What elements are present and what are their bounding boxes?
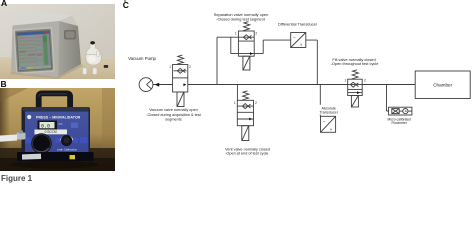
wire pump to vacuum valve — [153, 84, 173, 86]
svg-text:1: 1 — [235, 32, 237, 36]
separation valve Q2 — [238, 22, 254, 70]
machine top face — [13, 11, 73, 26]
label: Absolute Transducer — [318, 105, 340, 115]
caption (cropped) — [1, 174, 32, 183]
wire — [306, 40, 318, 84]
base — [17, 152, 94, 161]
bench shadow under machine — [10, 64, 83, 79]
wire — [236, 85, 238, 101]
svg-text:Transducer: Transducer — [319, 111, 338, 115]
label C — [123, 1, 129, 9]
svg-text:1: 1 — [169, 65, 171, 69]
photo B — [0, 88, 115, 171]
table cells — [18, 35, 43, 66]
blue front panel — [25, 112, 89, 157]
wire — [319, 85, 321, 117]
knob — [31, 133, 51, 153]
svg-text:1: 1 — [344, 78, 346, 82]
small dial — [61, 136, 73, 141]
node arrow to pump — [155, 83, 159, 87]
separation valve flow arrowhead — [250, 52, 253, 55]
white strip — [35, 130, 68, 135]
svg-text:1: 1 — [234, 101, 236, 105]
fill valve flow arrowhead — [357, 91, 360, 94]
svg-text:Differential Transducer: Differential Transducer — [278, 22, 318, 27]
machine side face — [58, 21, 81, 77]
top label row — [27, 115, 31, 119]
chamber — [415, 71, 470, 99]
svg-text:-Closed during acquisition & t: -Closed during acquisition & test — [146, 113, 201, 117]
svg-text:Vacuum valve normally open: Vacuum valve normally open — [149, 108, 197, 112]
vent valve Q3 — [237, 91, 253, 141]
svg-text:2: 2 — [364, 78, 366, 82]
absolute transducer U2 — [321, 116, 336, 132]
screen bezel — [13, 27, 55, 74]
svg-text:2: 2 — [255, 101, 257, 105]
vacuum valve flow arrowhead — [183, 83, 186, 86]
svg-text:Chamber: Chamber — [433, 82, 452, 87]
wire — [217, 37, 238, 84]
schematic panel C — [0, 0, 474, 179]
handle — [39, 93, 70, 108]
svg-text:-Open at end of test cycle: -Open at end of test cycle — [225, 152, 268, 156]
display — [38, 121, 58, 130]
svg-text:2: 2 — [255, 32, 257, 36]
svg-text:Vacuum Pump: Vacuum Pump — [128, 56, 156, 61]
svg-text:−: − — [323, 120, 326, 125]
svg-text:Flowmeter: Flowmeter — [392, 121, 408, 125]
svg-text:+: + — [330, 127, 333, 132]
vacuum pump — [139, 78, 153, 92]
vent valve flow arrowhead — [249, 118, 252, 121]
wire — [387, 85, 389, 112]
machine front face — [11, 21, 59, 77]
vacuum valve Q1 — [173, 55, 188, 106]
left fitting + tube — [17, 133, 26, 140]
svg-text:+: + — [300, 43, 303, 48]
device body — [22, 107, 91, 162]
differential transducer U1 — [291, 33, 306, 48]
svg-text:-Open throughout test cycle: -Open throughout test cycle — [331, 61, 379, 66]
svg-text:−: − — [293, 36, 296, 41]
photo A — [0, 4, 115, 79]
label A — [1, 0, 7, 7]
svg-text:segments: segments — [165, 117, 182, 121]
svg-text:-Closed during test segment: -Closed during test segment — [216, 17, 266, 22]
fill valve Q4 — [348, 70, 363, 107]
svg-text:2: 2 — [189, 65, 191, 69]
wire — [231, 37, 291, 53]
small vials — [83, 68, 87, 75]
label B — [1, 80, 7, 88]
micro-calibrated flowmeter FM1 — [389, 107, 412, 115]
main line — [188, 84, 415, 86]
small black cap — [104, 65, 109, 68]
bottle apparatus — [86, 44, 102, 65]
